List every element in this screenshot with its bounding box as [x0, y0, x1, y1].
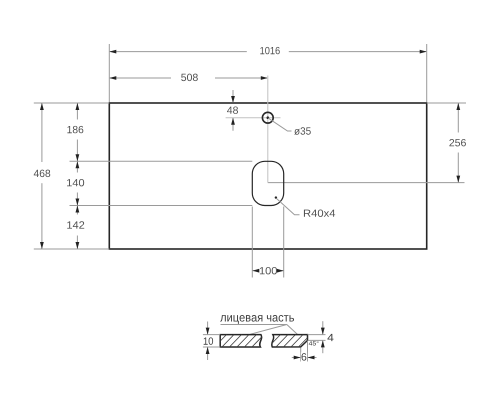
dimension 186 upper segment: [76, 103, 78, 120]
wire: top extension line right (x=426.7): [426, 44, 428, 103]
wire: extension line slot left edge down: [251, 207, 253, 278]
dimension 142 upper segment: [76, 206, 78, 215]
dimension 186 top arrowhead: [76, 103, 80, 110]
wire: extension line section bottom left: [203, 346, 220, 348]
value label 142: [67, 221, 84, 228]
section left bar hatching: [213, 333, 273, 349]
dimension 140 top arrowhead: [76, 161, 80, 168]
dimension 256 upper segment: [457, 103, 459, 133]
section right bar outline: [272, 335, 308, 347]
dimension 100 left arrow: [252, 270, 258, 272]
dimension 186 lower segment: [76, 140, 78, 162]
faucet hole circle: [262, 112, 273, 123]
dimension 468 bottom arrowhead: [40, 242, 44, 249]
section right bar hatching: [267, 333, 320, 349]
section label leader to left bar: [251, 325, 287, 335]
dimension 140 lower segment: [76, 193, 78, 206]
dimension 508 left arrowhead: [109, 76, 116, 80]
slot leader anchor dot: [275, 196, 277, 198]
value label 468: [34, 170, 50, 177]
dimension 468 upper segment: [41, 103, 43, 162]
value label 186: [67, 126, 83, 133]
section label leader to right bar: [287, 325, 298, 335]
dimension 1016 right arrowhead: [420, 50, 427, 54]
dimension 1016 left arrowhead: [109, 50, 116, 54]
dimension 4 upper arrow: [322, 321, 324, 334]
value label 48: [227, 106, 238, 113]
wire: extension line 6 right: [307, 341, 309, 362]
wire: extension line 6 left (chamfer foot): [300, 348, 302, 362]
wire: slot horizontal centerline to right: [268, 182, 465, 184]
dimension 468 lower segment: [41, 183, 43, 248]
value label 1016: [260, 47, 279, 54]
wire: horizontal line through faucet hole center: [226, 117, 281, 119]
value label 4: [327, 334, 333, 341]
dimension 468 top arrowhead: [40, 103, 44, 110]
wire: left extension line top edge: [34, 102, 110, 104]
value label 6 background: [301, 353, 307, 362]
dimension 48 upper arrow (outside): [232, 90, 234, 103]
panel outline rectangle: [109, 103, 426, 249]
wire: extension line slot bottom tangent: [70, 205, 253, 207]
value label 10: [204, 337, 213, 344]
section label underline shelf: [221, 324, 287, 326]
dimension 140 upper segment: [76, 162, 78, 173]
slot hole obround: [252, 161, 283, 205]
dimension 10 upper arrow: [207, 322, 209, 335]
faucet hole center dot: [267, 116, 270, 119]
dimension 256 lower segment: [457, 153, 459, 183]
dimension 142 top arrowhead: [76, 206, 80, 213]
section left bar outline: [220, 335, 261, 347]
dimension 4 lower arrow: [322, 341, 324, 353]
value label 45deg: [309, 341, 319, 345]
dimension 508 right arrowhead: [261, 76, 268, 80]
leader line for R40x4: [277, 199, 300, 215]
dimension 508 line left segment: [110, 77, 171, 79]
wire: extension line chamfer top: [308, 334, 326, 336]
dimension 256 bottom arrowhead: [456, 176, 460, 183]
wire: extension line section top left: [203, 334, 220, 336]
dimension 10 lower arrow: [207, 347, 209, 360]
wire: left extension line bottom edge: [34, 248, 110, 250]
value label 100: [260, 267, 277, 274]
wire: right extension line top edge: [427, 102, 466, 104]
dimension 6 left arrow: [292, 357, 301, 359]
section label лицевая часть: [220, 315, 294, 324]
dimension 140 bottom arrowhead: [76, 199, 80, 206]
dimension 256 top arrowhead: [456, 103, 460, 110]
dimension 1016 line right segment: [289, 51, 426, 53]
dimension 186 bottom arrowhead: [76, 154, 80, 161]
value label 140: [67, 179, 84, 186]
wire: vertical centerline through holes: [267, 76, 269, 183]
value label 508: [181, 74, 198, 81]
dimension 142 lower segment: [76, 236, 78, 249]
dimension 508 line right segment: [215, 77, 267, 79]
value label 256: [449, 139, 466, 146]
dimension 6 right arrow: [308, 357, 317, 359]
wire: extension line slot top tangent: [70, 160, 253, 162]
wire: extension line slot right edge down: [283, 207, 285, 278]
leader line for ø35: [268, 118, 291, 131]
value label R40x4: [304, 209, 335, 216]
dimension 100 right arrow: [277, 270, 283, 272]
dimension 1016 line left segment: [110, 51, 247, 53]
dimension 48 lower arrow (outside): [232, 118, 234, 131]
wire: extension line chamfer bottom: [308, 339, 326, 341]
value label ø35: [294, 127, 311, 135]
dimension 142 bottom arrowhead: [76, 242, 80, 249]
value label 6: [302, 353, 307, 360]
wire: top extension line left (x=109.3): [108, 44, 110, 103]
